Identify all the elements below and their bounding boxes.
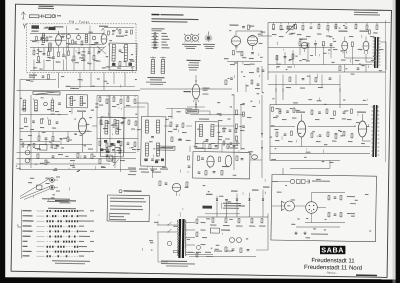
- resistor R5: [47, 51, 49, 55]
- table row 2 contacts: [46, 215, 48, 217]
- wire long mid rail: [190, 114, 244, 116]
- table row 2 label: [22, 215, 32, 216]
- wire stereo vertical left: [269, 105, 271, 161]
- annotation text cluster pickup: [46, 183, 50, 184]
- wire audio lower verticals: [275, 74, 278, 92]
- wire drop V3: [237, 61, 238, 92]
- table row 5 tie line: [36, 230, 44, 232]
- audio tiny labels: [272, 34, 277, 35]
- detector labels: [222, 166, 229, 167]
- wire am hrail: [20, 114, 68, 116]
- center labels: [168, 131, 173, 132]
- detector box: [193, 152, 250, 179]
- resistor R11: [119, 62, 121, 67]
- wire secondary taps: [186, 222, 196, 224]
- annotation text cluster fm-if: [260, 32, 265, 33]
- BF3 right parts: [223, 128, 225, 132]
- wire top rail mid extension: [140, 87, 232, 90]
- wire drops to bottom rail: [33, 60, 35, 71]
- capacitor C26: [32, 120, 35, 122]
- dial cluster box: [39, 144, 47, 150]
- wire center links: [164, 125, 171, 127]
- capacitor C7: [52, 56, 55, 58]
- audio lower labels: [286, 87, 291, 88]
- table row 3 label: [22, 220, 33, 221]
- wire diode drops: [216, 201, 219, 217]
- tiny terminal rows: [128, 167, 136, 168]
- audio small drops: [276, 55, 278, 65]
- BF3 coil a: [199, 124, 202, 136]
- IF row 2 parts: [100, 120, 102, 124]
- capacitor C1: [40, 15, 42, 18]
- resistor R33: [292, 54, 294, 58]
- note text top-left: [38, 6, 53, 7]
- spare coil symbol L6: [151, 59, 155, 73]
- resistor R13: [247, 25, 249, 29]
- wire verticals in tuner: [33, 48, 35, 51]
- alignment trimmer T1: [185, 35, 191, 41]
- note Ersatz rectifier: [223, 203, 241, 204]
- wire mains input: [157, 224, 177, 227]
- wire em84 to label: [195, 102, 197, 110]
- tuner mid hline: [30, 40, 66, 41]
- svg-text:A: A: [17, 223, 19, 227]
- resistor R24: [355, 25, 357, 29]
- wire right bus near frame: [383, 20, 388, 162]
- antenna symbol: [21, 12, 23, 15]
- node arrow A2: [16, 167, 20, 169]
- capacitor C19: [345, 26, 348, 28]
- titling text DRF: [151, 14, 159, 16]
- table row 1 label: [22, 210, 31, 211]
- wire arrows vertical: [261, 95, 262, 138]
- tuner partition wire 2: [89, 25, 90, 70]
- resistor R21: [318, 24, 320, 28]
- legend symbol list: [152, 32, 159, 34]
- svg-text:- Stereo -: - Stereo -: [325, 271, 338, 275]
- wire stereo rails: [270, 103, 368, 106]
- switch box with cross: [107, 155, 112, 161]
- table row 1 right note: [79, 210, 84, 211]
- table footnote: [52, 260, 90, 262]
- wire FM box drop 5: [103, 72, 106, 90]
- wire em84 feed: [195, 75, 197, 84]
- tube V7 label: [359, 30, 368, 31]
- node A bottom left: [17, 226, 21, 228]
- wire mid verticals to decoder: [114, 145, 117, 168]
- capacitor C31: [45, 137, 48, 139]
- BF2 coil lower b: [156, 143, 159, 156]
- tube V5 label: [299, 38, 307, 39]
- wire FM box drop 3: [79, 72, 82, 88]
- wire bottom rail of tuner: [30, 69, 134, 72]
- table row 3 tie line: [36, 220, 44, 222]
- IF transformer box BF3: [195, 122, 218, 149]
- potentiometer P1: [25, 150, 30, 155]
- wire am vert drops: [38, 131, 40, 136]
- resistor R22: [327, 25, 329, 29]
- boxed label Ratiofilter: [158, 146, 175, 150]
- capacitor C33: [225, 198, 228, 200]
- AM bandfilter can BF4: [100, 117, 124, 157]
- output tube V7 EL95 envelope: [363, 41, 369, 51]
- coil L2: [49, 43, 52, 51]
- stereo parts row1: [271, 107, 273, 111]
- annotation text cluster power: [221, 233, 223, 235]
- tube V2 label: [116, 36, 124, 37]
- table row 9 right note: [79, 251, 90, 252]
- wire mid rail: [30, 46, 104, 48]
- wire into box: [282, 168, 284, 175]
- IF row 3 parts: [99, 141, 101, 145]
- capacitor C25: [58, 102, 61, 104]
- dial cluster parts: [22, 143, 24, 147]
- table row 4 tie line: [37, 225, 45, 227]
- wire socket stubs: [54, 179, 58, 181]
- wire bf2 feed: [136, 102, 148, 104]
- table heading: [55, 200, 76, 201]
- table row 4 contacts: [47, 225, 49, 227]
- tuner dense sprinkle: [75, 50, 77, 52]
- resistor R17: [272, 25, 274, 29]
- BF3 label: [199, 118, 209, 119]
- table row 6 contacts: [47, 235, 49, 237]
- power transformer TR3 core: [178, 219, 181, 258]
- wire FM box drop 6: [113, 73, 115, 85]
- wire top row feed: [272, 180, 290, 183]
- table row 6 right note: [79, 236, 90, 237]
- capacitor C16: [230, 77, 233, 79]
- scanner black edge right: [396, 0, 400, 283]
- heater wire bottom: [186, 253, 213, 256]
- resistor R6: [57, 52, 59, 56]
- output transformer TR2: [372, 105, 374, 157]
- capacitor C11: [98, 50, 101, 52]
- wire plate links TR2: [361, 137, 363, 141]
- resistor R4: [37, 57, 39, 61]
- oscillator coupling cross: [97, 46, 106, 54]
- wire right mid vertical 2: [240, 105, 241, 150]
- resistor R3: [33, 50, 35, 54]
- crossover parts: [328, 195, 330, 199]
- BF2 below text: [139, 169, 148, 170]
- table row 3 right note: [79, 221, 90, 222]
- wire lower link rail: [68, 85, 135, 87]
- wire mains drop: [157, 232, 160, 262]
- wire if verticals: [96, 96, 98, 152]
- wire dial rails: [17, 151, 136, 155]
- dial cord diagonal 3: [24, 189, 49, 200]
- capacitor C28: [52, 155, 55, 157]
- wire left audio vertical: [267, 22, 269, 79]
- table row 9 contacts: [46, 251, 48, 253]
- spare coil symbol L7: [161, 60, 165, 74]
- resistor R18: [280, 25, 282, 29]
- document number: [356, 274, 377, 276]
- driver tube V11 envelope: [297, 121, 306, 137]
- resistor R2: [45, 15, 51, 18]
- capacitor C14: [242, 25, 245, 27]
- wire if rail 1: [97, 95, 138, 96]
- table row 8 contacts: [46, 246, 48, 248]
- BF4 lower parts: [104, 140, 107, 143]
- wire am rail 3: [20, 143, 92, 145]
- wire BF4 right rail: [124, 106, 145, 109]
- table row 9 label: [22, 251, 31, 252]
- mixer tube V8 ECH81 envelope: [78, 118, 86, 134]
- resistor R25: [366, 25, 368, 29]
- crossover labels: [347, 196, 355, 197]
- tube V6 label: [338, 30, 347, 31]
- resistor R30: [351, 42, 353, 47]
- resistor R9: [83, 55, 85, 59]
- wire speaker links: [295, 205, 306, 207]
- antenna input box: [31, 25, 39, 29]
- annotation text cluster center mid: [187, 171, 189, 173]
- resistor R26: [376, 25, 378, 29]
- AM coil L8: [23, 100, 26, 111]
- BF2 coil upper: [145, 120, 148, 133]
- volume pot oval: [251, 155, 257, 159]
- AM coil L9: [35, 100, 38, 111]
- wire to lower box: [290, 168, 330, 169]
- small contact marks: [100, 149, 103, 152]
- table row 7 contacts: [46, 241, 48, 243]
- resistor R15: [241, 51, 243, 55]
- dial cluster parts: [77, 153, 79, 158]
- wire if rail 3: [97, 138, 138, 139]
- table row 8 tie line: [37, 246, 45, 248]
- boxed value U-St: [48, 27, 55, 30]
- table row 1 tie line: [37, 210, 45, 212]
- tuner partition wire 1: [66, 25, 67, 70]
- secondary labels: [200, 222, 205, 223]
- wire top rail: [30, 32, 104, 34]
- table row 5 contacts: [46, 230, 48, 232]
- annotation text cluster dial: [101, 167, 106, 168]
- detector diode D1: [225, 155, 232, 166]
- antenna socket J2: [50, 185, 55, 190]
- svg-text:FM - Tuner: FM - Tuner: [69, 20, 90, 24]
- capacitor C21: [330, 43, 333, 45]
- V12 label: [357, 111, 366, 112]
- star caption: [203, 44, 215, 45]
- boxed label Abstimmanzeige: [186, 109, 199, 113]
- capacitor C10: [88, 51, 91, 53]
- table row 10 contacts: [46, 255, 48, 257]
- supply labels row: [206, 194, 213, 195]
- dial cord diagonal 1: [20, 178, 50, 197]
- resistor R41: [315, 77, 317, 81]
- loudspeaker box: [271, 174, 377, 241]
- parts lower V4 area: [257, 68, 259, 72]
- table row 2 tie line: [36, 215, 44, 217]
- supply bottom parts: [225, 247, 227, 252]
- filter bottom parts: [112, 63, 116, 66]
- rectifier diode D2: [216, 198, 218, 200]
- dial cord diagonal 2: [20, 186, 50, 199]
- coil L3: [85, 35, 88, 43]
- resistor R43: [52, 137, 54, 141]
- wire plate rail: [236, 30, 262, 33]
- capacitor C23: [357, 67, 360, 69]
- resistor R39: [45, 160, 47, 165]
- detector parts: [197, 156, 199, 161]
- diagonal lever: [113, 159, 118, 166]
- resistor R19: [294, 24, 296, 28]
- table row 8 right note: [79, 246, 87, 247]
- small text labels in tuner: [32, 41, 37, 42]
- driver tube V5 envelope: [301, 42, 308, 49]
- info box heading: [119, 190, 122, 193]
- electrolytic C24: [229, 237, 234, 242]
- wire mid connects: [215, 125, 234, 128]
- table row 10 tie line: [37, 255, 45, 257]
- info box rows: [110, 198, 144, 200]
- annotation text cluster am left: [129, 147, 131, 149]
- wire left verticals: [19, 92, 22, 170]
- capacitor C27: [56, 121, 59, 123]
- wire FM box drop 2: [57, 73, 60, 89]
- label heiz: [29, 75, 37, 76]
- output tube V12 envelope: [358, 121, 367, 137]
- scanner shading right: [393, 0, 396, 283]
- wire TR1 secondary: [380, 41, 386, 43]
- tube V2 ECC85b: [101, 34, 107, 44]
- resistor R37: [48, 120, 50, 124]
- table row 1 contacts: [46, 210, 48, 212]
- svg-text:Freudenstadt 11: Freudenstadt 11: [311, 258, 355, 265]
- BF4 coil b: [116, 121, 119, 135]
- table row 4 label: [22, 225, 31, 226]
- wire BF4 vertical: [108, 95, 111, 117]
- FM tuner dashed enclosure: [26, 22, 136, 26]
- tuning capacitor C4: [76, 35, 80, 39]
- table row 7 tie line: [36, 240, 44, 242]
- wire supply bus: [197, 216, 268, 218]
- annotation text cluster audio top: [289, 59, 291, 62]
- table row 10 right note: [79, 255, 84, 256]
- selenium rectifier B250: [210, 228, 219, 233]
- resistor R36: [40, 119, 42, 123]
- small am labels: [22, 109, 26, 110]
- capacitor C13: [42, 75, 45, 77]
- table left bracket: [21, 209, 23, 258]
- capacitor C30: [329, 77, 332, 79]
- wire audio lower rail 2: [268, 83, 340, 85]
- resistor R27: [299, 41, 301, 45]
- AM trimmer C24: [44, 102, 48, 106]
- resistor R31: [369, 30, 371, 34]
- rectifier diode D3: [236, 198, 238, 200]
- ground marks bottom: [295, 232, 297, 234]
- label Netzteil: [202, 206, 212, 209]
- tuner top rail 2: [104, 26, 134, 29]
- table row 6 tie line: [37, 235, 45, 237]
- resistor R32: [276, 55, 278, 59]
- wire lower audio rail: [268, 63, 372, 66]
- wire box left taps: [272, 180, 278, 182]
- wire mid audio rail: [268, 46, 335, 48]
- output tube V6 EL95 envelope: [342, 41, 348, 50]
- capacitor C17: [287, 26, 290, 28]
- IF output filter can: [109, 43, 137, 70]
- seldom symbol star: [205, 37, 213, 39]
- resistor R7: [67, 51, 69, 55]
- ratio detector tube V9: [207, 156, 214, 167]
- capacitor C6: [43, 52, 46, 54]
- wire label to rail: [199, 110, 210, 112]
- resistor R14: [232, 50, 234, 54]
- wire if rail 2: [97, 117, 138, 118]
- small labels in filter: [117, 68, 121, 69]
- parts above transformer: [159, 181, 161, 186]
- wire det top links: [204, 144, 206, 152]
- trimmer C3: [66, 34, 70, 38]
- capacitor C20: [314, 42, 317, 44]
- wire left edge vertical: [19, 80, 21, 92]
- wire bottom audio rail: [268, 70, 386, 74]
- annotation text cluster below fm: [81, 79, 83, 81]
- TR3 primary winding: [178, 220, 179, 222]
- rectifier diode D4: [248, 198, 250, 200]
- resistor R1: [29, 15, 39, 18]
- wire link to audio: [258, 35, 272, 37]
- alignment trimmer T2: [192, 35, 198, 41]
- V10 caption: [202, 88, 209, 89]
- V10 label: [183, 91, 191, 92]
- resistor R23: [335, 25, 337, 29]
- transformer caption: [161, 260, 187, 262]
- V11 label: [296, 111, 305, 112]
- supply part labels: [210, 224, 217, 225]
- resistor R42: [38, 136, 40, 140]
- wire v8 links: [71, 108, 73, 115]
- wire right mid vertical: [233, 95, 235, 170]
- resistor R16: [225, 80, 227, 85]
- table row 8 label: [22, 246, 27, 247]
- table row 10 label: [22, 255, 29, 256]
- node Y: [23, 23, 25, 26]
- right mid column parts: [235, 110, 237, 114]
- wire supply bottoms: [206, 256, 256, 258]
- speaker box top parts: [290, 179, 294, 183]
- table row 5 label: [22, 230, 32, 231]
- table row 7 right note: [79, 241, 84, 242]
- fuse Si1: [173, 251, 178, 253]
- wire heater rail: [20, 79, 56, 80]
- heater voltage labels: [188, 252, 193, 253]
- TR3 secondary winding: [185, 220, 186, 222]
- wire top rail mid: [16, 88, 139, 92]
- speaker bottom caption: [311, 234, 328, 235]
- capacitor C9: [78, 51, 81, 53]
- annotation text cluster stereo right: [344, 110, 348, 111]
- resistor R8: [73, 56, 75, 60]
- antenna socket J1: [50, 178, 55, 183]
- resistor R35: [24, 118, 26, 122]
- resistor R38: [37, 154, 39, 159]
- lower link label: [70, 88, 79, 89]
- resistor R40: [289, 77, 291, 81]
- grid coil L1: [42, 33, 45, 42]
- table row 7 label: [22, 241, 27, 242]
- parts left of detector box: [188, 156, 190, 160]
- resistor R44: [67, 137, 69, 141]
- resistor R12: [47, 75, 49, 80]
- wire FM box drop 7: [124, 73, 126, 86]
- connector face: [306, 202, 318, 214]
